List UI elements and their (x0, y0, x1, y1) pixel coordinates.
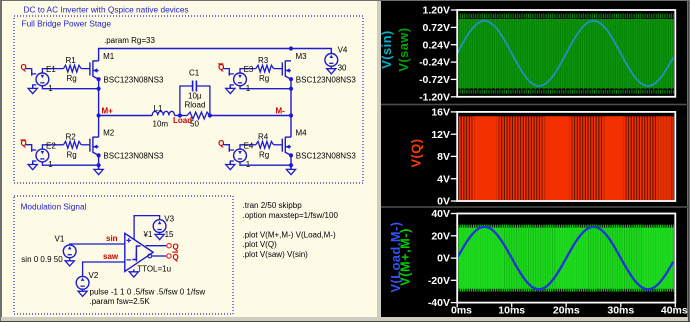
voltage source V3 (15V) (153, 220, 166, 233)
junction: Rload / C1 right leg (208, 113, 212, 117)
svg-text:E4: E4 (244, 141, 254, 150)
svg-text:Q: Q (173, 253, 179, 262)
wire: E3 to R3 (240, 69, 256, 73)
resistor R1 (Rg) (63, 65, 81, 72)
svg-text:saw: saw (103, 252, 119, 261)
svg-text:V(saw): V(saw) (396, 27, 411, 71)
svg-text:Rg: Rg (67, 74, 77, 83)
node M- junction (289, 113, 293, 117)
svg-text:1: 1 (246, 84, 251, 93)
wire: +30V top rail (99, 49, 332, 61)
voltage source V2 (pulse) (76, 276, 89, 289)
transistor M3 (BSC123N08NS3) (282, 61, 291, 80)
svg-text:Rload: Rload (185, 101, 206, 110)
svg-text:sin: sin (106, 234, 118, 243)
capacitor C1 plates (192, 81, 194, 92)
wire: E1 to M1 source (42, 86, 98, 89)
junction: top rail / M3 drain (289, 46, 293, 50)
ground under V3 (155, 232, 164, 240)
svg-text:50: 50 (190, 119, 199, 128)
plot1 V(saw) trace (dense green) (458, 13, 674, 19)
svg-text:10µ: 10µ (188, 92, 202, 101)
svg-text:sin 0 0.9 50: sin 0 0.9 50 (21, 255, 63, 264)
wire: comparator output Q (146, 245, 167, 247)
inductor L1 (10m) (152, 111, 174, 115)
svg-text:-40V: -40V (428, 297, 450, 309)
ground under comparator (129, 269, 138, 277)
power stage boundary box (14, 16, 363, 183)
svg-text:M-: M- (276, 107, 286, 116)
svg-text:.tran 2/50 skipbp: .tran 2/50 skipbp (243, 201, 303, 210)
wire: comparator output Qbar (152, 255, 167, 257)
svg-text:10ms: 10ms (498, 305, 525, 317)
svg-text:Rg: Rg (67, 150, 77, 159)
ground under E4 (226, 162, 235, 170)
voltage source V4 (30V) (325, 54, 338, 67)
svg-text:-0.24V: -0.24V (419, 57, 450, 69)
svg-text:E2: E2 (46, 141, 56, 150)
plot2 y-axis labels and ticks (451, 111, 457, 113)
dependent source E1 (VCVS, gain 1) (26, 69, 37, 89)
plot2 V(Q) trace (dense red PWM) (458, 116, 674, 200)
wire: E4 to M4 source (240, 162, 291, 165)
wire: E1 to R1 (42, 69, 63, 73)
svg-text:R1: R1 (66, 56, 77, 65)
svg-text:Q: Q (218, 139, 224, 148)
svg-text:Q: Q (21, 63, 27, 72)
wire: R4 to gate (274, 144, 283, 146)
voltage source V1 (sin 0 0.9 50) (63, 245, 76, 258)
svg-text:M4: M4 (296, 128, 308, 137)
svg-text:-0.72V: -0.72V (419, 74, 450, 86)
transistor M2 (BSC123N08NS3) (90, 137, 99, 156)
svg-text:Modulation Signal: Modulation Signal (21, 202, 87, 212)
modulation signal boundary box (14, 196, 233, 314)
svg-text:Rg: Rg (259, 150, 269, 159)
svg-text:0.24V: 0.24V (423, 39, 450, 51)
inversion bubble (148, 254, 152, 258)
svg-text:DC to AC Inverter with Qspice: DC to AC Inverter with Qspice native dev… (24, 4, 189, 14)
ground under V2 (78, 289, 87, 297)
svg-text:16V: 16V (431, 107, 450, 119)
dependent source E4 (VCVS, gain 1) (223, 145, 234, 165)
svg-text:40ms: 40ms (661, 305, 688, 317)
svg-text:8V: 8V (437, 151, 450, 163)
schmitt hysteresis glyph (132, 246, 140, 260)
svg-text:BSC123N08NS3: BSC123N08NS3 (296, 75, 357, 84)
svg-text:.plot V(M+,M-) V(Load,M-): .plot V(M+,M-) V(Load,M-) (243, 230, 336, 239)
svg-text:0V: 0V (437, 253, 450, 265)
junction: E3 output / M3 source (289, 87, 293, 91)
svg-text:TTOL=1u: TTOL=1u (137, 265, 171, 274)
capacitor C1 (10u) branch wires (180, 86, 193, 116)
svg-text:BSC123N08NS3: BSC123N08NS3 (296, 152, 357, 161)
plot1 y-axis labels and ticks (451, 9, 457, 11)
svg-text:-1.20V: -1.20V (419, 91, 450, 103)
junction: M4 source / E4 / ground (289, 163, 293, 167)
svg-text:-20V: -20V (428, 275, 450, 287)
resistor Rload (50) (187, 112, 210, 119)
svg-text:E1: E1 (46, 65, 56, 74)
wire: E4 to R4 (240, 145, 256, 149)
pane divider 1 (381, 104, 688, 106)
svg-text:BSC123N08NS3: BSC123N08NS3 (103, 75, 164, 84)
resistor R2 (Rg) (63, 141, 81, 148)
pin Q (port) (167, 244, 171, 248)
ground under M4 (286, 167, 295, 175)
plot2 frame (457, 112, 675, 201)
svg-text:0.72V: 0.72V (423, 22, 450, 34)
junction: E1 output / M1 source (97, 87, 101, 91)
wire: R1 to gate (81, 68, 90, 70)
ground under E2 (28, 162, 37, 170)
svg-text:V1: V1 (55, 235, 65, 244)
svg-text:V(M+,M-): V(M+,M-) (398, 228, 413, 286)
svg-text:V2: V2 (89, 271, 99, 280)
plot1 V(sin) trace (sine) (457, 21, 673, 86)
svg-text:Rg: Rg (259, 74, 269, 83)
ground under E3 (226, 86, 235, 94)
plot3 V(M+,M-) trace (dense green) (458, 225, 674, 228)
svg-text:20ms: 20ms (553, 305, 580, 317)
svg-text:.param fsw=2.5K: .param fsw=2.5K (90, 297, 151, 306)
wire: R2 to gate (81, 144, 90, 146)
wire: M1 source to M+ node to M2 drain (98, 79, 100, 137)
svg-text:V4: V4 (338, 46, 348, 55)
svg-text:Full Bridge Power Stage: Full Bridge Power Stage (22, 19, 112, 29)
ground under V1 (65, 258, 74, 266)
svg-text:M2: M2 (103, 128, 115, 137)
plot3 frame (457, 214, 675, 303)
ground under M2 (94, 167, 103, 175)
wire: E2 to M2 source (42, 162, 98, 165)
svg-text:pulse -1 1 0 .5/fsw .5/fsw 0 1: pulse -1 1 0 .5/fsw .5/fsw 0 1/fsw (90, 288, 206, 297)
svg-text:15: 15 (165, 230, 174, 239)
wire: L1 to Load node (175, 115, 188, 117)
wire: V1 to comparator + input (node sin) (70, 243, 125, 246)
svg-text:0V: 0V (437, 196, 450, 208)
svg-text:V(Q): V(Q) (409, 138, 424, 167)
svg-text:.option maxstep=1/fsw/100: .option maxstep=1/fsw/100 (243, 211, 339, 220)
plot1 frame (457, 10, 675, 97)
wire: E2 to R2 (42, 145, 63, 149)
svg-text:V3: V3 (164, 215, 174, 224)
svg-text:L1: L1 (154, 104, 163, 113)
wire: comparator VDD to V3 (134, 216, 160, 240)
wire: M2 source down (98, 155, 100, 169)
svg-text:BSC123N08NS3: BSC123N08NS3 (103, 152, 164, 161)
svg-text:30ms: 30ms (607, 305, 634, 317)
pin Qbar (port) (167, 254, 171, 258)
svg-text:Q: Q (173, 242, 179, 251)
junction: M2 source / E2 / ground (97, 163, 101, 167)
svg-text:R3: R3 (258, 56, 269, 65)
wire: M4 source down (290, 155, 292, 169)
node M+ junction (97, 113, 101, 117)
ground under E1 (28, 86, 37, 94)
svg-text:V(sin): V(sin) (379, 30, 394, 69)
svg-text:.plot V(saw) V(sin): .plot V(saw) V(sin) (243, 250, 309, 259)
resistor R3 (Rg) (256, 65, 274, 72)
transistor M1 (BSC123N08NS3) (90, 61, 99, 80)
wire: Rload to M- (210, 115, 291, 117)
time axis ticks and labels (456, 303, 458, 308)
svg-text:40V: 40V (431, 208, 450, 220)
dependent source E2 (VCVS, gain 1) (26, 145, 37, 165)
svg-text:30: 30 (338, 64, 347, 73)
node Load junction (178, 113, 182, 117)
ground under V4 (327, 66, 336, 74)
svg-text:M1: M1 (103, 52, 115, 61)
svg-text:C1: C1 (189, 69, 200, 78)
dependent source E3 (VCVS, gain 1) (223, 69, 234, 89)
svg-text:10m: 10m (153, 119, 169, 128)
wire: M+ to L1 (99, 115, 153, 117)
wire: M3 source to M- node to M4 drain (290, 79, 292, 137)
plot3 V(Load,M-) trace (sine) (457, 227, 673, 289)
op-amp comparator Y1 (TTOL=1u) (125, 233, 153, 271)
svg-text:E3: E3 (244, 65, 254, 74)
svg-text:R2: R2 (66, 132, 77, 141)
wire: E3 to M3 source (240, 86, 291, 89)
wire: R3 to gate (274, 68, 283, 70)
svg-text:20V: 20V (431, 230, 450, 242)
svg-text:R4: R4 (258, 132, 269, 141)
resistor R4 (Rg) (256, 141, 274, 148)
pane divider 2 (381, 206, 688, 208)
svg-text:.param Rg=33: .param Rg=33 (104, 36, 155, 45)
wire: V2 to comparator - input (node saw) (83, 262, 125, 276)
svg-text:1: 1 (48, 84, 53, 93)
svg-text:1.20V: 1.20V (423, 5, 450, 17)
plot3 y-axis labels and ticks (451, 213, 457, 215)
svg-text:4V: 4V (437, 173, 450, 185)
svg-text:.plot V(Q): .plot V(Q) (243, 240, 278, 249)
svg-text:12V: 12V (431, 129, 450, 141)
svg-text:¥1: ¥1 (143, 230, 153, 239)
svg-text:0ms: 0ms (451, 305, 472, 317)
svg-text:M3: M3 (296, 52, 308, 61)
transistor M4 (BSC123N08NS3) (282, 137, 291, 156)
svg-text:M+: M+ (102, 107, 114, 116)
